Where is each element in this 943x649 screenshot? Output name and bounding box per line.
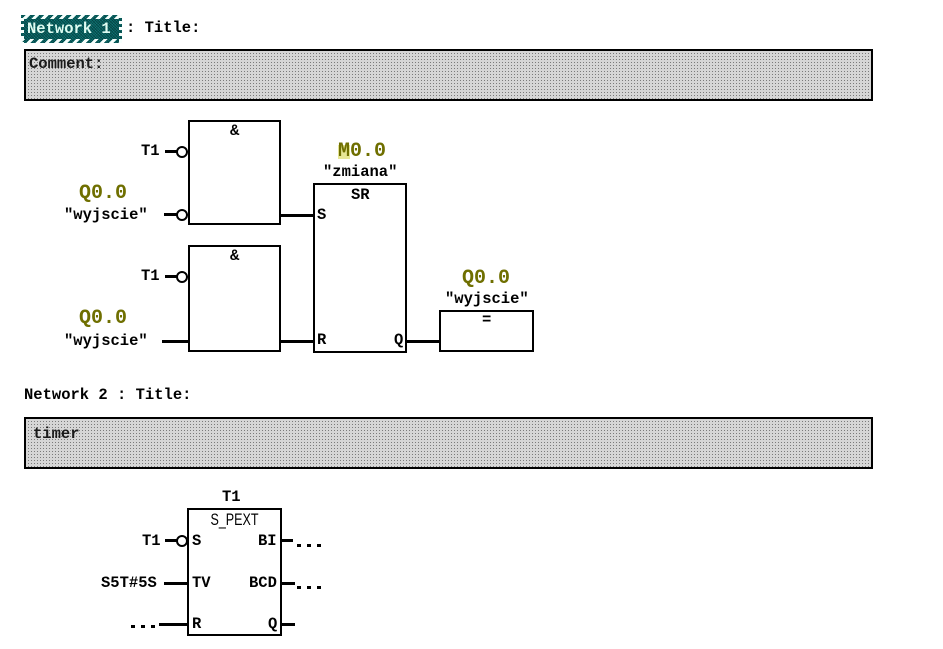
SR pin S <box>317 207 326 224</box>
network 2 header <box>24 387 191 404</box>
gate1 input 1 stub <box>165 150 177 153</box>
timer pin Q <box>268 616 277 633</box>
timer S_PEXT box <box>187 508 282 636</box>
timer output BI stub <box>282 539 293 542</box>
gate2 input 2 stub <box>162 340 188 343</box>
timer pin S <box>192 533 201 550</box>
timer pin R <box>192 616 201 633</box>
gate2 input 1 stub <box>165 275 177 278</box>
timer input S label T1 <box>142 533 161 550</box>
comment box 1 <box>24 49 873 101</box>
network 1 header selection <box>21 15 122 43</box>
AND gate 1 symbol <box>230 123 239 140</box>
wire gate1 output to SR S input <box>281 214 313 217</box>
wire SR Q output to assign coil <box>407 340 439 343</box>
timer input TV label S5T#5S <box>101 575 157 592</box>
assign coil box <box>439 310 534 352</box>
gate1 input 1 label T1 <box>141 143 160 160</box>
comment box 2 <box>24 417 873 469</box>
timer output BCD dots <box>297 586 301 589</box>
timer output Q stub <box>282 623 295 626</box>
timer pin BI <box>258 533 277 550</box>
SR label <box>351 187 370 204</box>
timer address T1 <box>222 489 241 506</box>
gate1 input 1 negation circle <box>176 146 188 158</box>
timer output BCD stub <box>282 582 295 585</box>
timer input R dots <box>131 625 135 628</box>
gate1 input 2 negation circle <box>176 209 188 221</box>
SR flip-flop box <box>313 183 407 353</box>
SR flip-flop address M0.0 highlight <box>338 145 350 159</box>
gate2 input 2 address Q0.0 <box>79 309 127 329</box>
timer pin BCD <box>249 575 277 592</box>
timer input S negation circle <box>176 535 188 547</box>
AND gate 1 box <box>188 120 281 225</box>
timer input TV stub <box>164 582 187 585</box>
timer comment text <box>33 426 80 443</box>
network 1 label text <box>27 21 111 38</box>
AND gate 2 symbol <box>230 248 239 265</box>
wire gate2 output to SR R input <box>281 340 313 343</box>
assign coil address Q0.0 <box>462 269 510 289</box>
SR flip-flop symbol zmiana <box>323 164 397 181</box>
gate1 input 2 symbol wyjscie <box>64 207 148 224</box>
SR pin Q <box>394 332 403 349</box>
gate2 input 1 label T1 <box>141 268 160 285</box>
AND gate 2 box <box>188 245 281 352</box>
SR flip-flop address M0.0 <box>338 142 386 162</box>
timer type label S_PEXT <box>198 512 270 528</box>
assign = label <box>482 312 491 329</box>
gate2 input 2 symbol wyjscie <box>64 333 148 350</box>
gate1 input 2 stub <box>164 213 177 216</box>
comment text <box>29 56 103 73</box>
gate2 input 1 negation circle <box>176 271 188 283</box>
timer pin TV <box>192 575 211 592</box>
timer input S stub <box>165 539 177 542</box>
timer input R stub <box>159 623 187 626</box>
timer output BI dots <box>297 544 301 547</box>
assign coil symbol wyjscie <box>445 291 529 308</box>
gate1 input 2 address Q0.0 <box>79 184 127 204</box>
network 1 title text <box>126 20 200 37</box>
SR pin R <box>317 332 326 349</box>
